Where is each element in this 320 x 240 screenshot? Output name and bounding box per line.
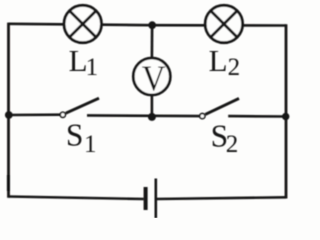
- wire top-left segment: [9, 24, 153, 25]
- lamp L1: [64, 5, 101, 42]
- svg-text:1: 1: [86, 54, 99, 81]
- wire bottom-left segment: [9, 197, 144, 200]
- wire middle left (rail to S1): [9, 113, 61, 116]
- label L1: [69, 43, 99, 81]
- svg-text:S: S: [66, 118, 84, 153]
- wire top-right segment: [152, 24, 286, 27]
- svg-text:1: 1: [84, 131, 97, 158]
- junction node right rail / middle wire: [282, 113, 289, 120]
- wire left rail: [7, 23, 10, 198]
- wire voltmeter bottom lead: [151, 95, 154, 117]
- label L2: [209, 43, 241, 81]
- svg-text:V: V: [142, 58, 166, 98]
- svg-text:L: L: [209, 43, 228, 78]
- battery negative plate (short thick): [144, 187, 148, 210]
- label S1: [66, 118, 97, 158]
- svg-text:2: 2: [226, 131, 239, 158]
- svg-text:2: 2: [228, 54, 241, 81]
- wire right rail: [285, 24, 288, 198]
- wire middle right (S2 to rail): [228, 115, 286, 118]
- junction node left rail / middle wire: [5, 111, 13, 119]
- voltmeter V meter: [133, 58, 170, 98]
- switch S1: [60, 98, 99, 117]
- label S2: [211, 118, 239, 157]
- switch S2: [200, 98, 239, 118]
- wire middle center (S1 to S2): [87, 114, 199, 117]
- junction node top (voltmeter tap): [148, 21, 156, 29]
- junction node under voltmeter: [148, 113, 156, 121]
- wire bottom-right segment: [157, 197, 287, 199]
- lamp L2: [205, 5, 242, 42]
- battery positive plate (long thin): [155, 179, 158, 219]
- wire voltmeter top lead: [151, 25, 154, 58]
